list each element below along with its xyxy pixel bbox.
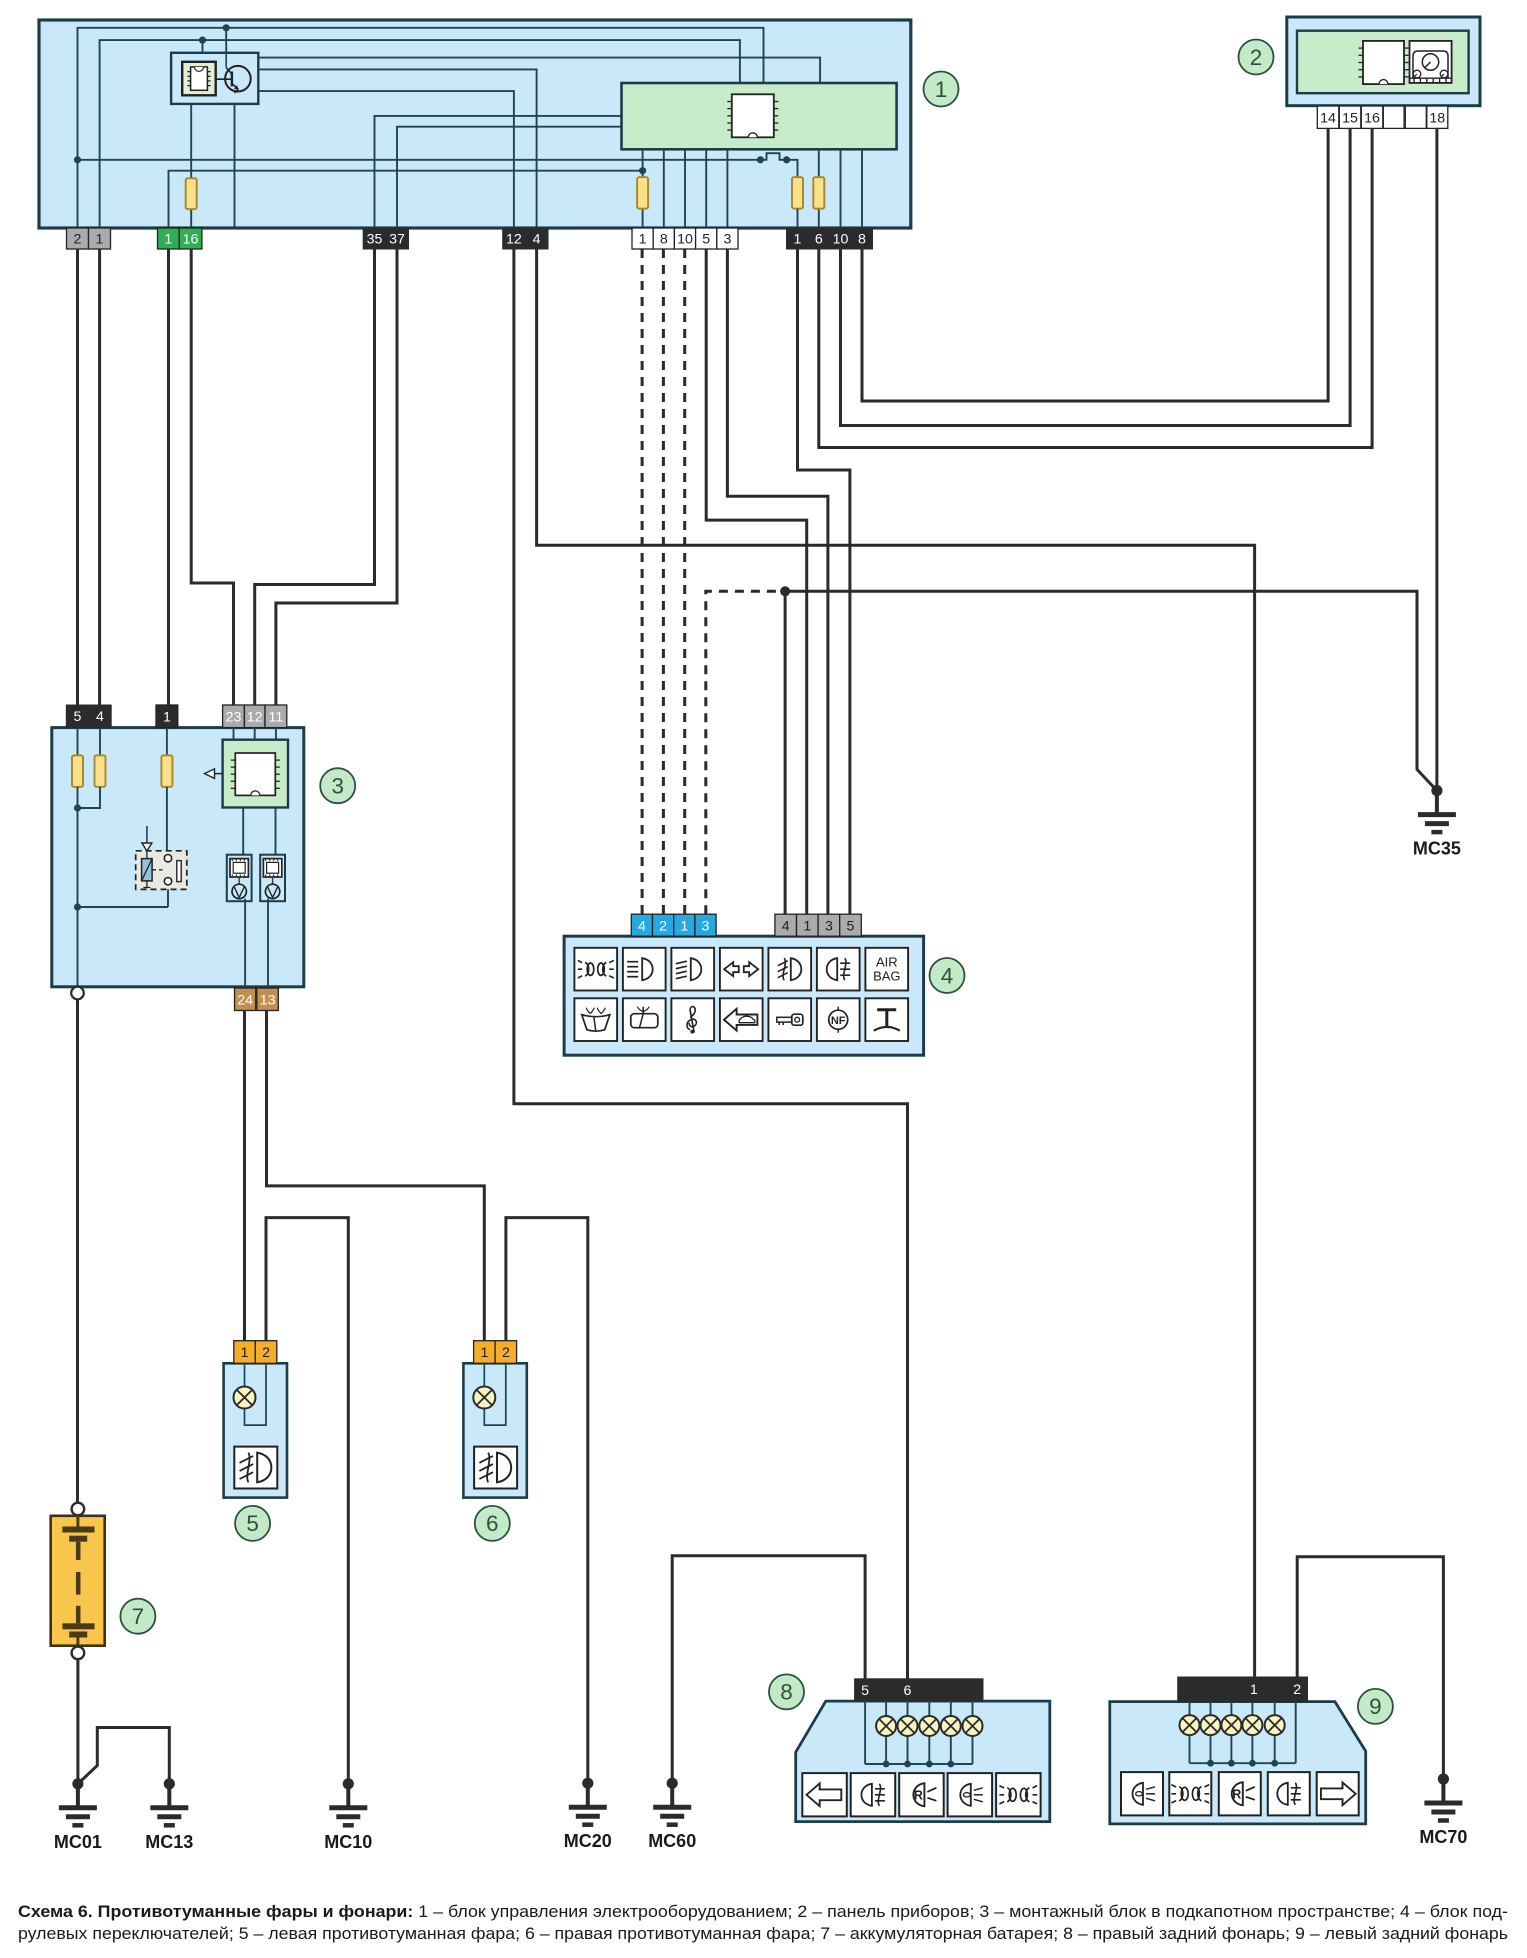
- connector: white pins 1,8,10,5,3 of block1: [632, 228, 738, 249]
- svg-text:1: 1: [1250, 1682, 1258, 1698]
- svg-text:1: 1: [803, 918, 811, 934]
- wire: L1 to pin 24: [244, 899, 246, 988]
- label: circled 7: [120, 1599, 155, 1634]
- caption line 2: [18, 1925, 1508, 1943]
- wire: driver out to pin 4: [258, 69, 536, 229]
- wire: transistor collector lead: [223, 24, 230, 53]
- wire: node J to ground MC35: [785, 591, 1437, 790]
- icon cell: position lights: [574, 948, 617, 991]
- svg-text:3: 3: [825, 918, 833, 934]
- ground MC20: [564, 1778, 612, 1852]
- wire: block1 green pin1 to block3 pin1: [167, 249, 170, 705]
- connector: pins 1,2 of block6: [474, 1341, 517, 1364]
- wire: CPU to white pin 8: [663, 149, 665, 229]
- svg-text:6: 6: [904, 1683, 912, 1699]
- icon: front fog symbol block6: [474, 1447, 517, 1489]
- svg-text:8: 8: [780, 1680, 793, 1705]
- wire: block1 pin2 to block3 pin5: [76, 249, 79, 705]
- fuse F3a: [72, 728, 83, 787]
- relay K1: [136, 826, 187, 889]
- wire: block1 pin16 to block3 pin23: [191, 249, 233, 705]
- label: circled 5: [235, 1506, 270, 1541]
- icon: turn arrow block9: [1317, 1772, 1359, 1815]
- connector: pins 14,15,16 of block 2: [1317, 106, 1404, 128]
- connector: pins 1,2 of block9: [1178, 1677, 1308, 1702]
- svg-text:3: 3: [723, 232, 731, 248]
- lamp bulb 9-5: [1265, 1715, 1285, 1735]
- svg-text:24: 24: [237, 992, 253, 1008]
- svg-text:10: 10: [833, 232, 849, 248]
- wire: driver out to pin 12: [258, 91, 514, 229]
- control module (green) of block3: [223, 740, 288, 808]
- svg-text:13: 13: [260, 992, 276, 1008]
- icon cell: front fog: [768, 948, 811, 991]
- svg-text:2: 2: [262, 1345, 270, 1361]
- svg-text:4: 4: [533, 232, 541, 248]
- wire: block3 pin24 to block5 pin1: [243, 1011, 246, 1341]
- icon cell: turn signals: [720, 948, 763, 991]
- wire: CPU to white pin 5: [705, 149, 707, 229]
- svg-text:1: 1: [794, 232, 802, 248]
- wire: CPU to white pin 3: [726, 149, 728, 229]
- wire: driver out to CPU: [258, 58, 820, 84]
- left fog lamp (block 5) body: [224, 1363, 287, 1497]
- svg-text:MC20: MC20: [564, 1831, 612, 1851]
- svg-text:3: 3: [331, 774, 344, 799]
- lamp driver L2: [260, 855, 285, 902]
- right rear lamp (block 8) body: [796, 1701, 1050, 1822]
- connector: gray pins 2,1 of block1: [67, 228, 111, 249]
- lamp bulb 8-5: [963, 1716, 983, 1736]
- ground MC70: [1419, 1773, 1467, 1847]
- svg-text:18: 18: [1429, 110, 1445, 126]
- wire: block1 pin37 to block3 pin11: [276, 249, 397, 705]
- lamp bulb 8-4: [941, 1716, 961, 1736]
- transistor Q1: [216, 53, 251, 93]
- icon cell: washer front: [574, 998, 617, 1041]
- CPU module (green) of block 1: [622, 83, 897, 149]
- fuse F3b: [95, 728, 106, 787]
- steering column switch unit (block 4) body: [564, 936, 924, 1055]
- svg-text:23: 23: [226, 709, 242, 725]
- connector: dark pins 1,6,10,8 of block1: [787, 228, 873, 249]
- icon cell: high beam: [623, 948, 666, 991]
- icon: turn arrow block8: [802, 1773, 847, 1816]
- ground MC60: [648, 1778, 696, 1852]
- fuse F3c: [161, 728, 172, 787]
- svg-text:5: 5: [861, 1683, 869, 1699]
- svg-text:14: 14: [1320, 110, 1336, 126]
- svg-text:2: 2: [74, 232, 82, 248]
- icon: tail lamp block8: [948, 1773, 993, 1816]
- ground MC13: [145, 1778, 193, 1852]
- svg-text:рулевых переключателей; 5 – ле: рулевых переключателей; 5 – левая против…: [18, 1925, 1508, 1943]
- lamp bulb 9-3: [1221, 1715, 1241, 1735]
- svg-text:10: 10: [677, 232, 693, 248]
- svg-text:9: 9: [1369, 1694, 1382, 1719]
- lamp bulb 9-2: [1201, 1715, 1221, 1735]
- icon: rear fog block9: [1268, 1772, 1310, 1815]
- fuse F1d: [813, 177, 824, 209]
- wire: block1 dark pin8 to block2 pin14: [862, 128, 1328, 401]
- wire: block1 pin1 to block3 pin4: [98, 249, 101, 705]
- wire: CPU to fuse F1b and white pin 1: [639, 149, 646, 229]
- connector: pin 18 of block 2: [1405, 106, 1448, 128]
- gauge icon: [1410, 41, 1452, 83]
- wire: green pin1 feed: [169, 171, 643, 229]
- lamp bulb: [234, 1363, 267, 1425]
- svg-text:7: 7: [132, 1604, 145, 1629]
- svg-text:16: 16: [183, 232, 199, 248]
- icon cell: audio: [671, 998, 714, 1041]
- wire: block2 pin18 to ground MC35: [1435, 128, 1438, 790]
- wire: ground strap MC01 to MC13: [78, 1728, 169, 1784]
- label: circled 8: [769, 1674, 804, 1709]
- wire: block5 pin2 to ground MC10: [266, 1218, 348, 1784]
- wire: pin 35 to CPU: [375, 116, 623, 229]
- connector: pins 5,6 of block8: [855, 1679, 983, 1701]
- svg-text:1: 1: [480, 1345, 488, 1361]
- svg-text:16: 16: [1364, 110, 1380, 126]
- svg-text:1: 1: [680, 918, 688, 934]
- battery GB1 (block 7): [51, 1503, 105, 1660]
- svg-text:11: 11: [269, 709, 284, 725]
- svg-text:1: 1: [935, 77, 948, 102]
- svg-text:MC13: MC13: [145, 1832, 193, 1852]
- CPU chip icon: [727, 94, 778, 137]
- wire: pin 37 to CPU: [397, 127, 623, 229]
- wire: block1 pin35 to block3 pin12: [255, 249, 375, 705]
- icon cell: follow-me: [720, 998, 763, 1041]
- label: circled 9: [1358, 1689, 1393, 1724]
- right fog lamp (block 6) body: [463, 1363, 526, 1497]
- svg-text:AIR: AIR: [876, 955, 898, 970]
- node J: [780, 586, 790, 596]
- connector: green pins 1,16 of block1: [158, 228, 202, 249]
- wire: module to driver L1: [242, 808, 244, 855]
- svg-text:8: 8: [660, 232, 668, 248]
- fuse F1b: [637, 177, 648, 209]
- wire: node J to block4 gray pin4: [784, 591, 787, 914]
- wire: block3 pin13 to block6 pin1: [267, 1011, 485, 1341]
- wire: L2 to pin 13: [267, 899, 269, 988]
- svg-text:5: 5: [702, 232, 710, 248]
- connector: pins 12,4 of block1: [503, 228, 548, 249]
- wires: pins 23,12,11 into module: [234, 728, 276, 740]
- chip U1a: [182, 62, 216, 96]
- fuse/relay box (block 3) body: [52, 728, 304, 987]
- wire: block1 white pin5 to block4 gray pin1: [706, 249, 807, 914]
- wire: block1 dark pin10 to block2 pin15: [841, 128, 1351, 425]
- icon cell: key: [768, 998, 811, 1041]
- svg-text:37: 37: [389, 232, 405, 248]
- svg-text:NF: NF: [831, 1015, 846, 1027]
- lamp bulb 8-2: [898, 1716, 918, 1736]
- connector: pins 35,37 of block1: [363, 228, 408, 249]
- fuse F1c on pin 1 path: [792, 177, 803, 229]
- svg-text:BAG: BAG: [873, 969, 900, 984]
- wire (dashed): block1 white pin8 to block4 blue pin2: [662, 249, 665, 914]
- icon cell: low beam: [671, 948, 714, 991]
- wires: block9 lamp bus: [1190, 1702, 1296, 1767]
- connector: gray pins 4,1,3,5 of block4: [775, 914, 861, 936]
- label: circled 4: [930, 958, 965, 993]
- lamp bulb 9-4: [1242, 1715, 1262, 1735]
- svg-text:5: 5: [74, 709, 82, 725]
- icon cell: rear fog: [817, 948, 860, 991]
- svg-text:MC10: MC10: [324, 1832, 372, 1852]
- wires: block8 lamp bus: [865, 1701, 972, 1767]
- ground MC10: [324, 1778, 372, 1852]
- connector: pin 1 of block3: [156, 705, 178, 728]
- icon cell: antenna: [865, 998, 908, 1041]
- svg-text:2: 2: [1293, 1682, 1301, 1698]
- svg-text:2: 2: [502, 1345, 510, 1361]
- svg-text:R: R: [914, 1789, 923, 1803]
- icon: rear fog block8: [851, 1773, 896, 1816]
- svg-text:R: R: [1232, 1788, 1241, 1802]
- icon: reverse block8: [899, 1773, 944, 1816]
- wire: transistor emitter down: [234, 104, 236, 227]
- node: junction pin2 / supply rail: [74, 156, 81, 163]
- block3 chip icon: [231, 753, 280, 795]
- wire: block6 pin2 to ground MC20: [506, 1218, 588, 1784]
- wire: block9 pin2 to ground MC70: [1297, 1557, 1443, 1779]
- small driver module (chip+transistor): [171, 53, 258, 104]
- lamp bulb: [473, 1363, 506, 1425]
- wire: F3c to relay contact: [166, 787, 168, 855]
- node: block3 output bushing: [71, 987, 84, 1000]
- caption line 1: [18, 1903, 1508, 1921]
- wire: battery negative to ground MC01: [76, 1659, 79, 1784]
- icon: tail lamp block9: [1121, 1772, 1163, 1815]
- arrow out of block3 chip: [205, 769, 223, 779]
- svg-text:35: 35: [367, 232, 383, 248]
- wire: CPU to dark pin 8: [861, 149, 863, 229]
- left rear lamp (block 9) body: [1110, 1702, 1366, 1824]
- svg-text:8: 8: [858, 232, 866, 248]
- ground MC35: [1413, 785, 1461, 859]
- wire: ground MC60 to block8 pin5: [672, 1556, 865, 1784]
- instrument panel (block 2) body: [1287, 17, 1480, 106]
- label: circled 3: [320, 768, 355, 803]
- icon cell: NF: [817, 998, 860, 1041]
- panel chip icon: [1359, 41, 1409, 84]
- svg-text:2: 2: [1250, 45, 1263, 70]
- control unit U1 (block 1) body: [39, 20, 911, 228]
- svg-text:4: 4: [638, 918, 646, 934]
- wire: block1 dark pin1 to block4 gray pin5: [798, 249, 850, 914]
- svg-text:5: 5: [847, 918, 855, 934]
- svg-text:MC35: MC35: [1413, 839, 1461, 859]
- wire (dashed): block1 white pin1 to block4 blue pin4: [641, 249, 644, 914]
- lamp bulb 9-1: [1180, 1715, 1200, 1735]
- wire: CPU to dark pin 10: [840, 149, 842, 229]
- svg-text:1: 1: [241, 1345, 249, 1361]
- wire: CPU to fuse F1d and dark pin 6: [818, 149, 820, 229]
- svg-text:3: 3: [702, 918, 710, 934]
- fuse F1a: [186, 178, 197, 209]
- wire: pin1 to CPU (net B): [100, 40, 740, 229]
- connector: pins 5,4 of block3: [66, 705, 111, 728]
- wire: pin2 to CPU (net A): [78, 28, 764, 229]
- icon: position block8: [996, 1773, 1041, 1816]
- svg-text:5: 5: [246, 1511, 259, 1536]
- connector: gray pins 23,12,11 of block3: [223, 705, 287, 728]
- wire: module to driver L2: [275, 808, 277, 855]
- label: circled 1: [924, 72, 959, 107]
- svg-text:6: 6: [815, 232, 823, 248]
- icon: position block9: [1169, 1772, 1211, 1815]
- svg-text:4: 4: [782, 918, 790, 934]
- svg-text:4: 4: [941, 963, 954, 988]
- svg-text:Схема 6. Противотуманные фары: Схема 6. Противотуманные фары и фонари: …: [18, 1903, 1508, 1921]
- wire: chip top lead: [199, 37, 206, 53]
- svg-text:MC70: MC70: [1419, 1827, 1467, 1847]
- svg-text:1: 1: [163, 709, 171, 725]
- connector: blue pins 4,2,1,3 of block4: [631, 914, 716, 936]
- svg-text:12: 12: [506, 232, 522, 248]
- lamp driver L1: [227, 855, 252, 902]
- wire: block1 pin4 to block9 pin1: [537, 249, 1255, 1677]
- svg-text:MC01: MC01: [54, 1832, 102, 1852]
- wire: block1 dark pin6 to block2 pin16: [819, 128, 1372, 447]
- icon: reverse block9: [1219, 1772, 1261, 1815]
- wire: block3 to battery positive: [76, 999, 79, 1502]
- icon cell: airbag: [865, 948, 908, 991]
- label: circled 2: [1239, 40, 1274, 75]
- svg-text:6: 6: [486, 1511, 499, 1536]
- svg-text:15: 15: [1342, 110, 1358, 126]
- wire: block1 white pin3 to block4 gray pin3: [727, 249, 828, 914]
- icon: front fog symbol block5: [234, 1447, 277, 1489]
- instrument panel green module: [1297, 31, 1469, 93]
- wire: chip bottom to fuse F1a: [190, 104, 192, 229]
- svg-text:12: 12: [247, 709, 263, 725]
- wire: block1 pin12 to block8 pin6: [514, 249, 908, 1679]
- label: circled 6: [475, 1506, 510, 1541]
- svg-text:1: 1: [164, 232, 172, 248]
- connector: pins 1,2 of block5: [234, 1341, 277, 1364]
- wire: F3a/F3b join: [74, 787, 100, 907]
- connector: tan pins 24,13 of block3: [235, 988, 279, 1011]
- svg-text:MC60: MC60: [648, 1831, 696, 1851]
- icon cell: washer rear: [623, 998, 666, 1041]
- wire (dashed): block4 blue pin3 to node J: [706, 591, 785, 914]
- wire: CPU to white pin 10: [684, 149, 686, 229]
- svg-text:1: 1: [639, 232, 647, 248]
- svg-text:1: 1: [96, 232, 104, 248]
- wire: supply rail to fuse and pin 1 (dark): [78, 160, 798, 177]
- wire: relay contact to battery feed: [74, 885, 168, 987]
- lamp bulb 8-1: [876, 1716, 896, 1736]
- svg-text:4: 4: [96, 709, 104, 725]
- ground MC01: [54, 1778, 102, 1852]
- wire (dashed): block1 white pin10 to block4 blue pin1: [683, 249, 686, 914]
- lamp bulb 8-3: [919, 1716, 939, 1736]
- svg-text:2: 2: [659, 918, 667, 934]
- shunt link FL1: [757, 153, 790, 163]
